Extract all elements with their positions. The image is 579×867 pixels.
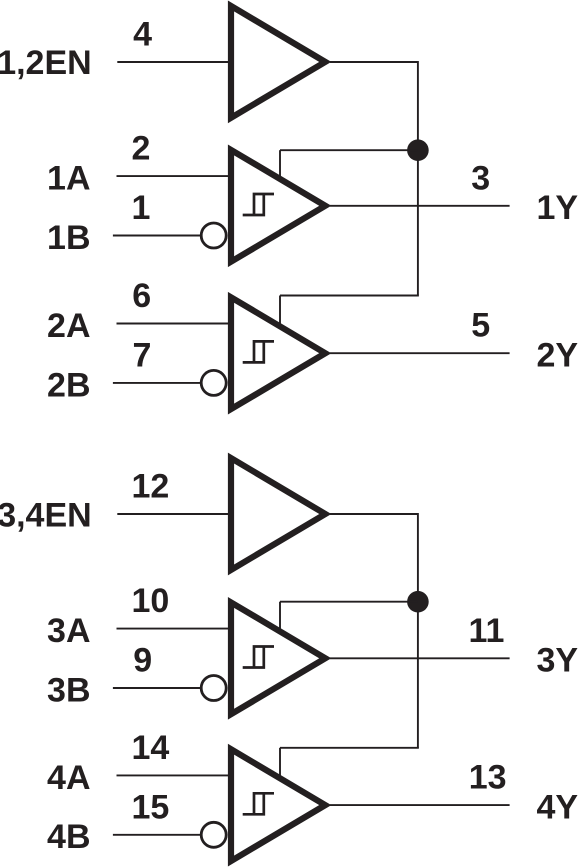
wire drop into receiver U3: [279, 602, 281, 631]
svg-text:3,4EN: 3,4EN: [0, 496, 92, 534]
svg-text:1A: 1A: [47, 160, 90, 198]
svg-text:3: 3: [471, 159, 490, 197]
hysteresis symbol U2: [243, 341, 274, 362]
svg-text:12: 12: [132, 468, 170, 506]
enable buffer G1 (1,2EN): [231, 6, 325, 118]
wire input 1A, pin 2: [117, 175, 230, 177]
svg-text:4: 4: [133, 16, 152, 54]
wire drop into receiver U4: [279, 748, 281, 778]
junction dot, enable bus 2: [407, 591, 429, 613]
svg-text:11: 11: [469, 612, 505, 650]
wire junction to receiver U1 enable: [280, 149, 418, 151]
inverting bubble 3B: [201, 676, 226, 701]
wire junction to receiver U3 enable: [280, 601, 418, 603]
wire 1,2EN input, pin 4: [117, 61, 229, 63]
wire vertical enable bus 2: [417, 513, 419, 748]
svg-text:3B: 3B: [47, 671, 90, 709]
inverting bubble 2B: [201, 370, 226, 395]
receiver U2 (2A/2B): [231, 297, 325, 409]
svg-text:3Y: 3Y: [537, 642, 579, 680]
svg-text:4Y: 4Y: [537, 789, 579, 827]
wire drop into receiver U2: [279, 296, 281, 326]
wire input 3A, pin 10: [117, 628, 230, 630]
wire input 2A, pin 6: [117, 323, 230, 325]
svg-text:3A: 3A: [47, 612, 90, 650]
wire output 1Y, pin 3: [330, 205, 510, 207]
svg-text:1,2EN: 1,2EN: [0, 44, 92, 82]
wire enable bus to receiver U4: [280, 747, 419, 749]
wire G2 output to bus: [330, 513, 418, 515]
receiver U1 (1A/1B): [231, 150, 325, 262]
hysteresis symbol U1: [243, 194, 274, 215]
svg-text:2B: 2B: [47, 366, 90, 404]
wire enable bus to receiver U2: [280, 295, 419, 297]
wire input 3B, pin 9: [113, 687, 201, 689]
wire output 3Y, pin 11: [330, 657, 510, 659]
svg-text:6: 6: [132, 277, 151, 315]
svg-text:2A: 2A: [47, 307, 90, 345]
inverting bubble 1B: [201, 223, 226, 248]
wire input 4B, pin 15: [113, 834, 201, 836]
svg-text:7: 7: [133, 336, 152, 374]
receiver U3 (3A/3B): [231, 602, 325, 714]
svg-text:2: 2: [132, 130, 151, 168]
svg-text:15: 15: [132, 788, 170, 826]
svg-text:1B: 1B: [47, 219, 90, 257]
enable buffer G2 (3,4EN): [231, 458, 325, 570]
svg-text:10: 10: [132, 582, 170, 620]
svg-text:9: 9: [133, 642, 152, 680]
wire vertical enable bus 1: [417, 61, 419, 295]
inverting bubble 4B: [201, 822, 226, 847]
wire input 1B, pin 1: [113, 235, 201, 237]
svg-text:1Y: 1Y: [537, 189, 579, 227]
svg-text:5: 5: [471, 307, 490, 345]
hysteresis symbol U3: [243, 647, 274, 668]
wire 3,4EN input, pin 12: [117, 513, 229, 515]
wire output 4Y, pin 13: [330, 804, 510, 806]
svg-text:4B: 4B: [47, 818, 90, 856]
junction dot, enable bus 1: [407, 139, 429, 161]
wire drop into receiver U1: [279, 150, 281, 178]
svg-text:4A: 4A: [47, 759, 90, 797]
svg-text:1: 1: [132, 189, 151, 227]
hysteresis symbol U4: [243, 793, 274, 814]
wire input 4A, pin 14: [117, 774, 230, 776]
wire input 2B, pin 7: [113, 382, 201, 384]
svg-text:13: 13: [469, 759, 507, 797]
receiver U4 (4A/4B): [231, 749, 325, 861]
wire G1 output to bus: [330, 61, 418, 63]
svg-text:14: 14: [132, 729, 170, 767]
wire output 2Y, pin 5: [330, 352, 510, 354]
svg-text:2Y: 2Y: [537, 337, 579, 375]
